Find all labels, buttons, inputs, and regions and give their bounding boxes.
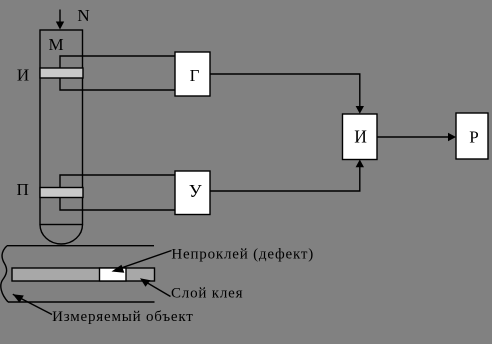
- svg-text:Слой клея: Слой клея: [171, 285, 243, 301]
- svg-text:Непроклей (дефект): Непроклей (дефект): [171, 247, 314, 263]
- svg-text:И: И: [17, 66, 29, 85]
- svg-text:Измеряемый объект: Измеряемый объект: [52, 309, 194, 325]
- svg-text:И: И: [354, 127, 367, 147]
- svg-text:Г: Г: [190, 66, 200, 85]
- svg-text:Р: Р: [469, 128, 478, 147]
- svg-text:П: П: [17, 180, 29, 199]
- svg-text:М: М: [48, 35, 63, 54]
- svg-text:N: N: [77, 6, 89, 25]
- svg-text:У: У: [189, 181, 202, 201]
